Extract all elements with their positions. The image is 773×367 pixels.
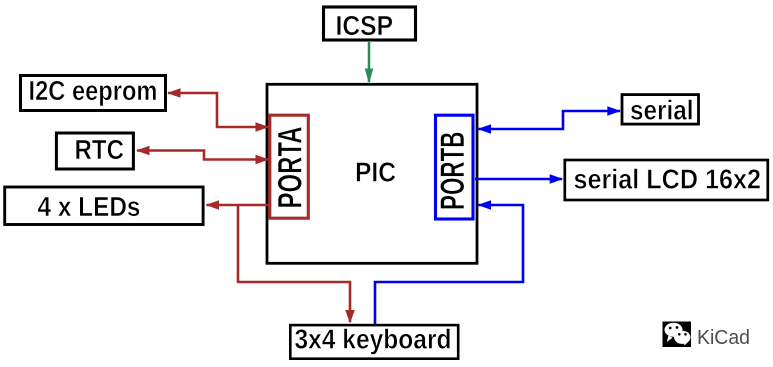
block I2C eeprom <box>21 75 166 111</box>
svg-text:serial LCD 16x2: serial LCD 16x2 <box>574 164 762 195</box>
wire RTC to PORTA <box>136 146 269 165</box>
svg-text:PIC: PIC <box>355 156 396 187</box>
wire PORTA branch to 3x4 keyboard <box>238 205 355 324</box>
svg-text:RTC: RTC <box>75 134 125 165</box>
svg-text:PORTB: PORTB <box>434 132 472 211</box>
block 4 x LEDs <box>5 187 203 225</box>
block RTC <box>56 133 133 169</box>
port box PORTB <box>434 115 473 219</box>
svg-text:serial: serial <box>630 95 694 126</box>
block serial <box>622 95 699 126</box>
block 3x4 keyboard <box>290 324 458 359</box>
svg-text:I2C eeprom: I2C eeprom <box>29 75 158 106</box>
svg-text:PORTA: PORTA <box>272 127 310 209</box>
wire serial to PORTB <box>478 106 621 134</box>
watermark KiCad text <box>697 326 751 350</box>
port box PORTA <box>270 115 310 218</box>
block ICSP <box>324 7 416 41</box>
wire 3x4 keyboard to PORTB <box>375 200 523 324</box>
wire 4 x LEDs to PORTA <box>206 200 270 210</box>
svg-text:3x4 keyboard: 3x4 keyboard <box>295 324 452 355</box>
wire ICSP to PIC (green programming arrow) <box>365 41 374 84</box>
svg-text:ICSP: ICSP <box>336 10 394 41</box>
wire I2C eeprom to PORTA <box>167 88 269 132</box>
svg-text:4 x LEDs: 4 x LEDs <box>38 191 141 222</box>
block PIC <box>267 84 477 263</box>
wire PORTB to serial LCD 16x2 <box>475 174 563 184</box>
svg-text:KiCad: KiCad <box>697 326 750 349</box>
watermark wechat icon <box>663 322 692 348</box>
block serial LCD 16x2 <box>565 160 768 200</box>
